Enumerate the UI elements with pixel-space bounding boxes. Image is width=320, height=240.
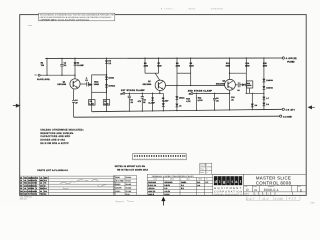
svg-text:DEC3009: DEC3009 (143, 83, 153, 86)
svg-text:5: 5 (36, 190, 37, 193)
printed circuit rev entries (200, 164, 208, 174)
svg-text:09: 09 (40, 190, 42, 193)
svg-text:.A48: .A48 (309, 201, 315, 204)
svg-text:1N4009: 1N4009 (266, 79, 272, 82)
svg-text:CORPORATION: CORPORATION (214, 190, 243, 193)
svg-text:R4: R4 (20, 184, 22, 187)
terminal C-8 -15V (282, 108, 284, 110)
svg-text:B-2: B-2 (197, 181, 200, 184)
capacitor C9 (237, 82, 239, 87)
svg-text:1N4009: 1N4009 (266, 87, 272, 90)
svg-text:R-PLY 6A: R-PLY 6A (148, 184, 157, 187)
svg-text:A-1.5V: A-1.5V (164, 190, 170, 193)
wire -15V bus (92, 109, 283, 111)
terminal A +10V fused (282, 57, 284, 59)
svg-text:R.MOHR: R.MOHR (114, 186, 122, 189)
diode D13 (262, 97, 265, 100)
terminal wire conversion chart (147, 174, 213, 195)
svg-text:C-8 -15 V: C-8 -15 V (286, 108, 296, 111)
capacitor C8 (214, 93, 216, 98)
resistor R5 (105, 92, 107, 111)
svg-text:+10V B: +10V B (148, 193, 155, 196)
resistor R6 (144, 58, 146, 73)
svg-text:DIST.: DIST. (244, 193, 249, 196)
size code number row dividers (252, 185, 297, 192)
diode D10A (175, 104, 178, 107)
smudge mark below notice box (28, 24, 32, 26)
svg-text:100M: 100M (94, 83, 99, 86)
svg-text:CLAMP: CLAMP (77, 64, 85, 67)
wire 2nd stage clamp bus (193, 92, 230, 94)
svg-text:1N754A: 1N754A (108, 84, 115, 87)
svg-text:D-6: D-6 (44, 187, 47, 190)
diode D7 series (242, 83, 245, 86)
digital logo boxes (214, 176, 242, 185)
svg-text:D-2-65: D-2-65 (126, 190, 132, 193)
svg-text:NEW: NEW (198, 178, 202, 181)
dist row check marks (255, 193, 270, 196)
svg-text:8.2: 8.2 (44, 193, 46, 196)
printed circuit rev table (200, 163, 212, 174)
svg-text:D-1: D-1 (181, 184, 184, 187)
svg-text:1N748: 1N748 (108, 77, 113, 80)
svg-text:GROUND: GROUND (148, 181, 157, 184)
svg-text:D-5: D-5 (44, 179, 47, 182)
svg-text:A-4: A-4 (197, 184, 200, 187)
conversion chart column heads (154, 178, 209, 181)
resistor R8 (176, 58, 178, 85)
transistor Q3 (225, 79, 236, 90)
svg-text:C-2 GND: C-2 GND (283, 115, 292, 118)
connector strip pin numbers row (135, 157, 185, 159)
revision history entries (114, 176, 131, 196)
diode D8 (162, 93, 164, 111)
svg-text:DIODES ARE D-662: DIODES ARE D-662 (40, 139, 65, 142)
svg-text:+10V (A): +10V (A) (148, 190, 156, 193)
capacitor C5 (128, 93, 130, 96)
title block outline (213, 174, 306, 195)
svg-text:C5: C5 (20, 187, 22, 190)
dist row cells (254, 192, 293, 196)
svg-text:0.7: 0.7 (266, 97, 269, 100)
wire input line level (40, 74, 75, 76)
svg-text:8480•8008: 8480•8008 (211, 7, 224, 10)
svg-text:C-8: C-8 (164, 187, 167, 190)
svg-text:750: 750 (24, 176, 27, 179)
resistor R1 (46, 58, 48, 75)
resistor R13 (229, 58, 231, 79)
svg-text:CODE: CODE (253, 186, 257, 188)
svg-text:8008-0-1: 8008-0-1 (264, 188, 279, 192)
resistor R7 (158, 58, 160, 73)
svg-text:7: 7 (263, 193, 264, 196)
wire R13 R14 tie (230, 72, 247, 74)
capacitor C2 (86, 82, 88, 86)
wire R8 R9 tie (177, 72, 191, 74)
svg-text:i: i (227, 179, 228, 184)
svg-text:4: 4 (36, 179, 37, 182)
resistor R14 (245, 58, 247, 73)
svg-text:C9: C9 (237, 89, 239, 92)
wire Q1 emitter to C2 (80, 83, 87, 85)
notice box top-left (39, 13, 115, 21)
note unless otherwise indicated (40, 128, 84, 145)
note mounting (115, 165, 149, 171)
svg-text:PARTS LIST A-PL-8008-0-0: PARTS LIST A-PL-8008-0-0 (37, 169, 68, 172)
svg-text:TERMINAL & WIRE CONVERSION CHA: TERMINAL & WIRE CONVERSION CHART (152, 175, 195, 178)
svg-text:662: 662 (40, 179, 43, 182)
diode D3 (106, 58, 108, 93)
wire Q1 base column down (73, 89, 75, 100)
revision history table (114, 176, 137, 196)
svg-text:RB IN TB2 9.5V 25±5% MAX: RB IN TB2 9.5V 25±5% MAX (117, 168, 149, 171)
svg-text:A.B.C.2988: A.B.C.2988 (114, 180, 123, 183)
svg-text:GROUND: GROUND (164, 181, 173, 184)
wire Q2 emitter to Q3 base (166, 84, 225, 86)
parts list table (20, 176, 115, 195)
svg-text:B-9-65: B-9-65 (126, 183, 131, 186)
diode D7 clamp column (152, 93, 154, 111)
svg-text:DEC3009: DEC3009 (216, 82, 226, 85)
border frame of drawing sheet (20, 15, 307, 196)
zener D5 (105, 84, 108, 87)
wire 1st stage clamp bus (125, 92, 163, 94)
svg-text:CAPACITORS ARE MFD: CAPACITORS ARE MFD (40, 135, 70, 138)
wire D2 to Q1 collector (74, 75, 76, 79)
zener D4 (105, 77, 108, 80)
svg-text:.01: .01 (24, 187, 26, 190)
svg-text:R16: R16 (20, 193, 23, 196)
wire Q3 emitter to C9 (235, 84, 237, 86)
svg-text:i: i (219, 179, 220, 184)
svg-text:1: 1 (36, 184, 37, 187)
svg-text:D-5-M: D-5-M (126, 180, 131, 183)
wire R6 R7 to Q2 (145, 72, 159, 74)
svg-text:Q1: Q1 (40, 182, 42, 185)
parts list entries (20, 176, 48, 195)
svg-text:100: 100 (40, 184, 43, 187)
svg-text:2-B.5V: 2-B.5V (164, 184, 170, 187)
handwritten pencil row below title block (246, 196, 300, 200)
diode D14 (262, 103, 265, 106)
resistor R9 (190, 58, 192, 85)
svg-text:D-10V: D-10V (164, 193, 170, 196)
svg-text:TB2: TB2 (40, 193, 43, 196)
left margin fold arrow (13, 104, 20, 107)
diode D12 column (251, 93, 253, 109)
svg-text:R11: R11 (20, 190, 23, 193)
svg-text:662: 662 (24, 182, 27, 185)
svg-text:.01: .01 (40, 176, 42, 179)
svg-text:1ST STAGE CLAMP: 1ST STAGE CLAMP (121, 89, 145, 92)
wire R16 to diode chain node (246, 92, 264, 94)
capacitor C4 (72, 100, 75, 102)
svg-text:CLAMP: CLAMP (162, 99, 169, 102)
svg-text:D-8-65: D-8-65 (126, 186, 132, 189)
svg-text:FUSED: FUSED (287, 60, 295, 63)
label value texts circuit (37, 57, 297, 118)
svg-text:4 DW: 4 DW (275, 197, 284, 201)
resistor R15 (263, 58, 265, 109)
diode D9 (176, 86, 178, 111)
terminal C-2 GND (280, 115, 282, 117)
svg-text:1,300: 1,300 (104, 102, 109, 105)
svg-text:13: 13 (36, 176, 38, 179)
zener D11 (262, 86, 265, 89)
potentiometer R16 (246, 81, 252, 88)
svg-text:B-26: B-26 (126, 193, 130, 196)
svg-text:2ND STAGE CLAMP: 2ND STAGE CLAMP (188, 89, 213, 92)
svg-text:5.6: 5.6 (266, 103, 269, 106)
svg-text:CS: CS (254, 189, 258, 192)
svg-text:2: 2 (36, 193, 37, 196)
svg-text:SLICE LEVEL: SLICE LEVEL (37, 78, 51, 81)
conversion chart entries (148, 181, 208, 196)
svg-text:12000: 12000 (247, 84, 252, 87)
svg-text:2-4-7: 2-4-7 (246, 197, 255, 201)
wire Q2 bottom to clamp bus (159, 90, 161, 93)
svg-text:UNLESS OTHERWISE INDICATED:: UNLESS OTHERWISE INDICATED: (40, 128, 84, 131)
resistor R4 (91, 92, 93, 111)
svg-text:5.6: 5.6 (255, 104, 258, 107)
svg-text:4.7K: 4.7K (186, 100, 191, 103)
wire Q3 bottom to clamp bus 2 (229, 90, 231, 93)
terminal LINE LEVEL input (38, 74, 40, 76)
svg-text:2: 2 (36, 187, 37, 190)
resistor R11 (196, 94, 198, 110)
svg-text:C-7: C-7 (205, 181, 208, 184)
svg-text:-15V 6A: -15V 6A (148, 187, 155, 190)
svg-text:C1: C1 (20, 179, 22, 182)
wire ground bus (74, 116, 280, 117)
node junction dots on top rail (46, 57, 264, 59)
svg-text:R8 N 5W 5PB & #2TFP: R8 N 5W 5PB & #2TFP (40, 142, 69, 145)
svg-text:l: l (240, 179, 241, 184)
svg-text:11 d: 11 d (262, 197, 268, 201)
svg-text:COPYRIGHT 1965 BY DIGITAL EQUI: COPYRIGHT 1965 BY DIGITAL EQUIPMENT CORP… (40, 18, 90, 21)
svg-text:4,700: 4,700 (198, 99, 204, 102)
svg-text:.01: .01 (24, 179, 26, 182)
svg-text:CLAMP: CLAMP (148, 101, 155, 104)
pointer marker below chart (162, 198, 165, 206)
svg-text:DEC3009: DEC3009 (57, 83, 67, 86)
svg-text:D-8-40: D-8-40 (126, 176, 132, 179)
connector terminal strip (133, 154, 187, 160)
svg-text:1: 1 (255, 193, 256, 196)
svg-text:R1: R1 (20, 176, 22, 179)
capacitor C1 (61, 58, 63, 64)
svg-text:▼ 1 3/4W 1: ▼ 1 3/4W 1 (161, 8, 175, 11)
svg-text:DRB 102: DRB 102 (20, 198, 27, 201)
svg-text:GMB2: GMB2 (181, 181, 186, 184)
svg-text:D2: D2 (20, 182, 22, 185)
size code number headers (244, 186, 302, 188)
svg-text:3: 3 (36, 182, 37, 185)
svg-text:NOTES: M MOUNT 8.2V 5%: NOTES: M MOUNT 8.2V 5% (115, 165, 145, 168)
svg-text:NEW: NEW (170, 178, 174, 181)
connector strip pins (134, 155, 185, 157)
wire top supply rail +10V (45, 57, 282, 59)
resistor R12 (229, 93, 231, 110)
right margin fold arrow (308, 106, 314, 109)
svg-text:A +10V (B): A +10V (B) (286, 57, 297, 60)
zener D10 (262, 79, 265, 82)
diode D2 clamp (74, 58, 76, 75)
digital logo letters (214, 179, 240, 184)
svg-text:1N34A: 1N34A (179, 97, 185, 100)
svg-text:4 2 2: 4 2 2 (289, 197, 297, 201)
svg-text:84001: 84001 (189, 7, 197, 10)
faint text beside marker (115, 201, 134, 202)
photocell module MC2 (92, 75, 107, 92)
capacitor C6 (141, 93, 143, 97)
svg-text:E-2: E-2 (181, 187, 184, 190)
svg-text:CONTROL 8008: CONTROL 8008 (256, 180, 292, 185)
svg-text:1,300: 1,300 (89, 102, 94, 105)
transistor Q1 (70, 79, 80, 89)
svg-text:RESISTORS ARE 1/4W,5%: RESISTORS ARE 1/4W,5% (40, 132, 73, 135)
svg-text:4: 4 (259, 193, 260, 196)
transistor Q2 (155, 80, 165, 90)
faint handwriting over parts list (60, 179, 107, 188)
